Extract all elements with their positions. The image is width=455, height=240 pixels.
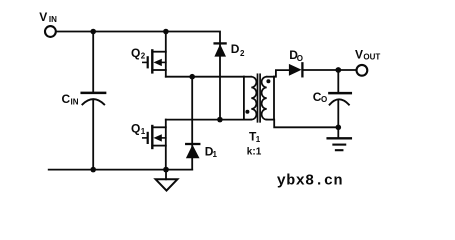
- svg-text:V: V: [355, 47, 363, 61]
- svg-text:2: 2: [141, 52, 146, 61]
- svg-text:V: V: [39, 10, 47, 24]
- svg-text:ybx8.cn: ybx8.cn: [277, 173, 343, 190]
- svg-text:Q: Q: [131, 46, 140, 60]
- svg-text:Q: Q: [131, 121, 140, 135]
- svg-text:O: O: [297, 54, 303, 63]
- svg-text:1: 1: [213, 150, 218, 159]
- svg-text:C: C: [62, 92, 71, 106]
- svg-text:IN: IN: [71, 97, 79, 106]
- svg-text:D: D: [231, 42, 240, 56]
- svg-text:IN: IN: [49, 15, 57, 24]
- svg-text:1: 1: [256, 135, 261, 144]
- svg-text:OUT: OUT: [363, 53, 380, 62]
- svg-text:k:1: k:1: [247, 147, 262, 158]
- svg-text:O: O: [321, 95, 327, 104]
- svg-text:2: 2: [240, 49, 245, 58]
- svg-text:1: 1: [141, 127, 146, 136]
